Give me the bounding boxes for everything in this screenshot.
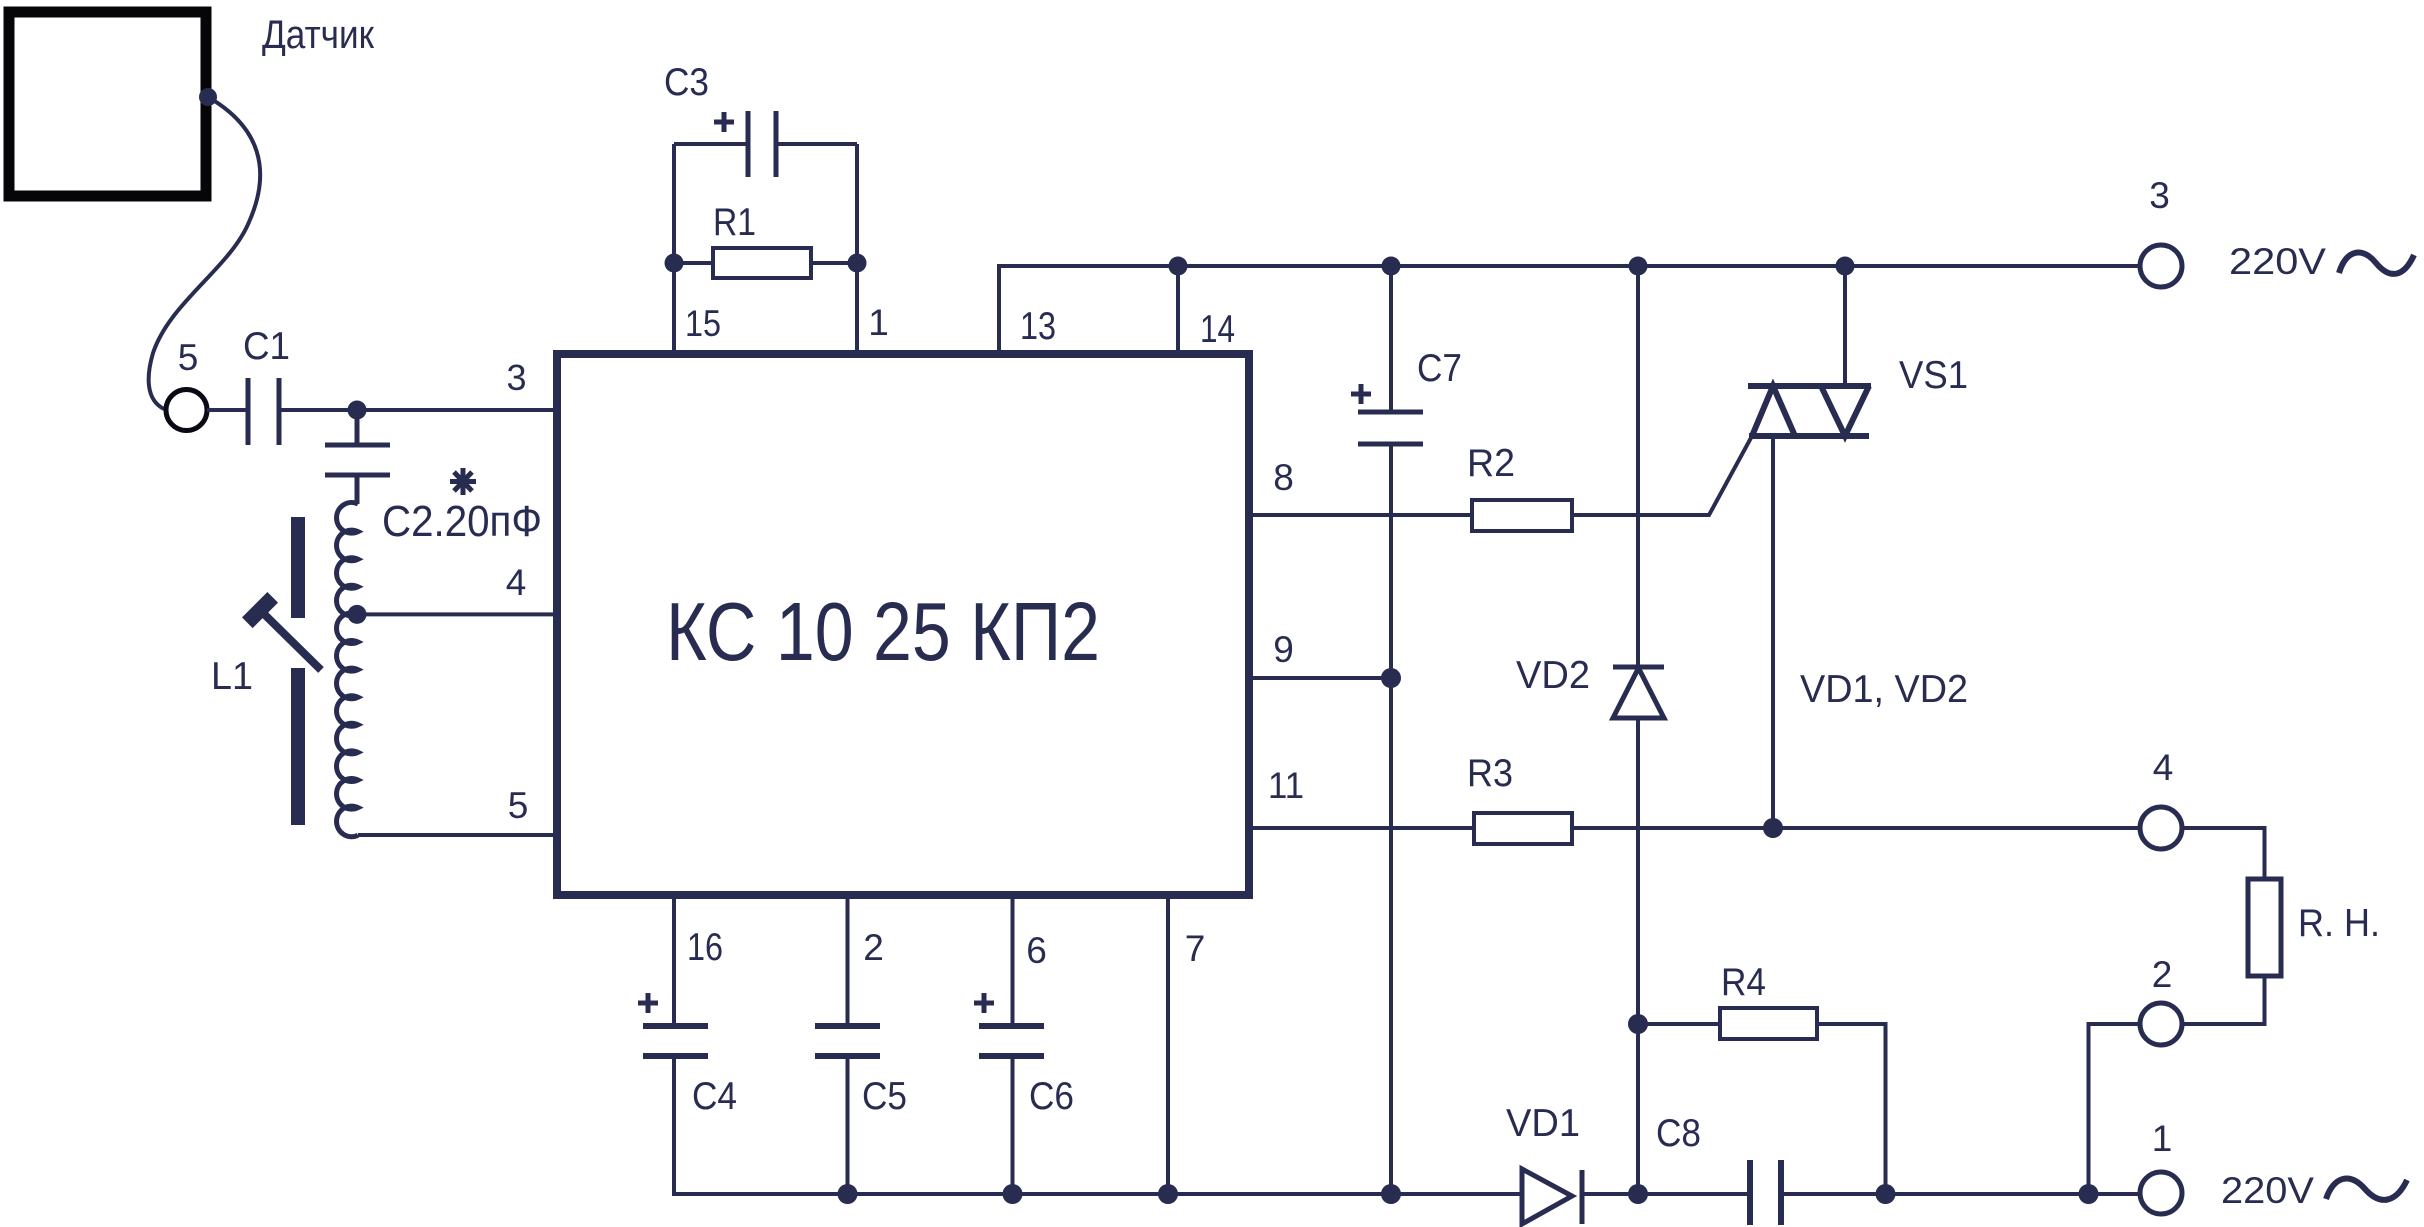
pin 14 stub bbox=[1176, 266, 1180, 354]
svg-text:2: 2 bbox=[863, 927, 884, 968]
svg-text:R4: R4 bbox=[1721, 961, 1766, 1004]
node sensor output bbox=[199, 88, 217, 106]
diode VD1 bbox=[1522, 1169, 1582, 1224]
sensor box bbox=[9, 12, 206, 196]
diode VD2 bbox=[1636, 266, 1640, 1194]
trimmer capacitor C2 bbox=[325, 410, 390, 504]
svg-text:C6: C6 bbox=[1029, 1075, 1074, 1118]
svg-text:C2.20пФ: C2.20пФ bbox=[382, 497, 542, 546]
svg-text:16: 16 bbox=[687, 926, 723, 969]
svg-text:VS1: VS1 bbox=[1899, 354, 1968, 397]
wire top bus bbox=[1178, 264, 2140, 268]
capacitor C7 bbox=[1389, 266, 1393, 412]
svg-text:7: 7 bbox=[1185, 928, 1206, 969]
node top C7 bbox=[1382, 257, 1401, 276]
svg-text:4: 4 bbox=[506, 562, 527, 603]
svg-text:VD1: VD1 bbox=[1506, 1102, 1580, 1145]
svg-text:1: 1 bbox=[2152, 1118, 2173, 1159]
wire terminal5 to C1 bbox=[207, 408, 248, 412]
wire pin 9 bbox=[1253, 676, 1391, 680]
wire pin 8 bbox=[1253, 513, 1472, 517]
wire RH to terminal 2 bbox=[2182, 976, 2265, 1024]
svg-text:R2: R2 bbox=[1467, 442, 1515, 485]
terminal 2 bbox=[2140, 1003, 2182, 1045]
svg-text:C1: C1 bbox=[243, 325, 290, 368]
inductor L1 coil bbox=[337, 502, 358, 836]
capacitor C6 bbox=[1011, 895, 1015, 1026]
node VD2 bottom bbox=[1628, 1184, 1648, 1204]
capacitor C8 bbox=[1750, 1160, 1781, 1225]
svg-text:Датчик: Датчик bbox=[262, 13, 374, 57]
node C6 bottom bbox=[1003, 1184, 1023, 1204]
node C5 bottom bbox=[838, 1184, 858, 1204]
wire pin 11 bbox=[1253, 826, 1474, 830]
node R4 bottom bbox=[1876, 1184, 1896, 1204]
node pin14 bbox=[1169, 257, 1188, 276]
svg-text:15: 15 bbox=[685, 303, 721, 344]
svg-text:4: 4 bbox=[2153, 747, 2174, 788]
wire pin 3 bbox=[357, 408, 557, 412]
capacitor C5 bbox=[846, 895, 850, 1026]
svg-text:L1: L1 bbox=[211, 655, 253, 698]
svg-text:220V: 220V bbox=[2229, 241, 2326, 282]
IC U1 box bbox=[557, 354, 1249, 895]
L1 adjust arrow bbox=[261, 611, 321, 670]
svg-text:VD1, VD2: VD1, VD2 bbox=[1800, 668, 1968, 711]
svg-text:R1: R1 bbox=[713, 201, 756, 244]
svg-text:13: 13 bbox=[1020, 305, 1056, 348]
L1 core bar lower bbox=[291, 668, 305, 825]
terminal 5 bbox=[166, 390, 207, 431]
C7 plus sign bbox=[1351, 384, 1371, 404]
tilde top bbox=[2339, 253, 2414, 274]
svg-text:14: 14 bbox=[1200, 308, 1235, 351]
node pin9/C7 bbox=[1381, 668, 1401, 688]
wire pin 5 bbox=[358, 833, 557, 837]
wire pin 4 bbox=[357, 612, 557, 616]
svg-text:3: 3 bbox=[2149, 175, 2170, 216]
VS1 anode wire bbox=[1843, 266, 1847, 386]
capacitor C4 bbox=[672, 895, 676, 1026]
svg-text:C5: C5 bbox=[862, 1075, 907, 1118]
pin 13 stub bbox=[999, 266, 1178, 354]
svg-text:2: 2 bbox=[2152, 954, 2173, 995]
wire terminal2 to bottom bus bbox=[2089, 1024, 2141, 1194]
wire bottom bus bbox=[674, 1054, 1522, 1194]
node A bbox=[348, 401, 367, 420]
tilde bottom bbox=[2326, 1179, 2407, 1200]
node VD2/R4 bbox=[1628, 1014, 1648, 1034]
svg-text:C4: C4 bbox=[692, 1075, 737, 1118]
resistor RH bbox=[2248, 879, 2281, 976]
wire sensor to terminal 5 bbox=[149, 97, 261, 409]
svg-text:5: 5 bbox=[178, 337, 199, 378]
node C7 bottom bbox=[1381, 1184, 1401, 1204]
capacitor C1 bbox=[248, 378, 279, 445]
svg-text:C7: C7 bbox=[1417, 347, 1462, 390]
svg-text:C3: C3 bbox=[664, 61, 709, 104]
svg-text:R. H.: R. H. bbox=[2298, 902, 2380, 945]
wire terminal4 to RH bbox=[2182, 828, 2265, 879]
node terminal2 branch bbox=[2079, 1184, 2099, 1204]
pin 1 stub bbox=[855, 144, 859, 354]
L1 core bar upper bbox=[291, 517, 305, 618]
wire R2 to gate bbox=[1572, 436, 1752, 515]
svg-text:6: 6 bbox=[1026, 930, 1047, 971]
svg-text:9: 9 bbox=[1273, 629, 1294, 670]
svg-text:8: 8 bbox=[1273, 457, 1294, 498]
resistor R2 bbox=[1472, 500, 1572, 531]
svg-text:КС 10 25 КП2: КС 10 25 КП2 bbox=[666, 585, 1100, 678]
node pin1/R1 bbox=[848, 254, 867, 273]
VS1 MT2 wire bbox=[1771, 436, 1775, 828]
svg-text:1: 1 bbox=[868, 302, 889, 343]
pin 15 stub bbox=[672, 144, 676, 354]
C4 plus sign bbox=[638, 993, 658, 1013]
resistor R3 bbox=[1474, 813, 1572, 844]
resistor R4 bbox=[1638, 1022, 1720, 1026]
svg-text:3: 3 bbox=[506, 357, 526, 398]
pin 7 stub bbox=[1166, 895, 1170, 1194]
C3 plus sign bbox=[714, 112, 734, 132]
capacitor C3 bbox=[674, 142, 748, 146]
asterisk mark bbox=[450, 468, 476, 495]
wire VD1 to C8 bbox=[1582, 1192, 1750, 1196]
triac VS1 bbox=[1748, 386, 1871, 436]
node coil tap bbox=[348, 605, 367, 624]
terminal 1 bbox=[2140, 1172, 2182, 1214]
wire C8 to terminal 1 bbox=[1781, 1192, 2140, 1196]
C6 plus sign bbox=[974, 993, 994, 1013]
svg-text:5: 5 bbox=[508, 785, 529, 826]
svg-text:220V: 220V bbox=[2221, 1170, 2314, 1211]
svg-text:C8: C8 bbox=[1656, 1112, 1701, 1155]
node MT2/R3 bbox=[1763, 818, 1783, 838]
node top VS1 bbox=[1836, 257, 1855, 276]
svg-text:VD2: VD2 bbox=[1516, 654, 1590, 697]
wire R3 to terminal 4 bbox=[1572, 826, 2140, 830]
node pin15/R1 bbox=[665, 254, 684, 273]
svg-text:R3: R3 bbox=[1467, 752, 1513, 795]
terminal 3 bbox=[2140, 245, 2182, 287]
node top VD2 bbox=[1629, 257, 1648, 276]
node pin7 bottom bbox=[1158, 1184, 1178, 1204]
terminal 4 bbox=[2140, 807, 2182, 849]
resistor R1 bbox=[674, 261, 713, 265]
svg-text:11: 11 bbox=[1268, 765, 1304, 806]
wire C1 to node bbox=[279, 408, 357, 412]
